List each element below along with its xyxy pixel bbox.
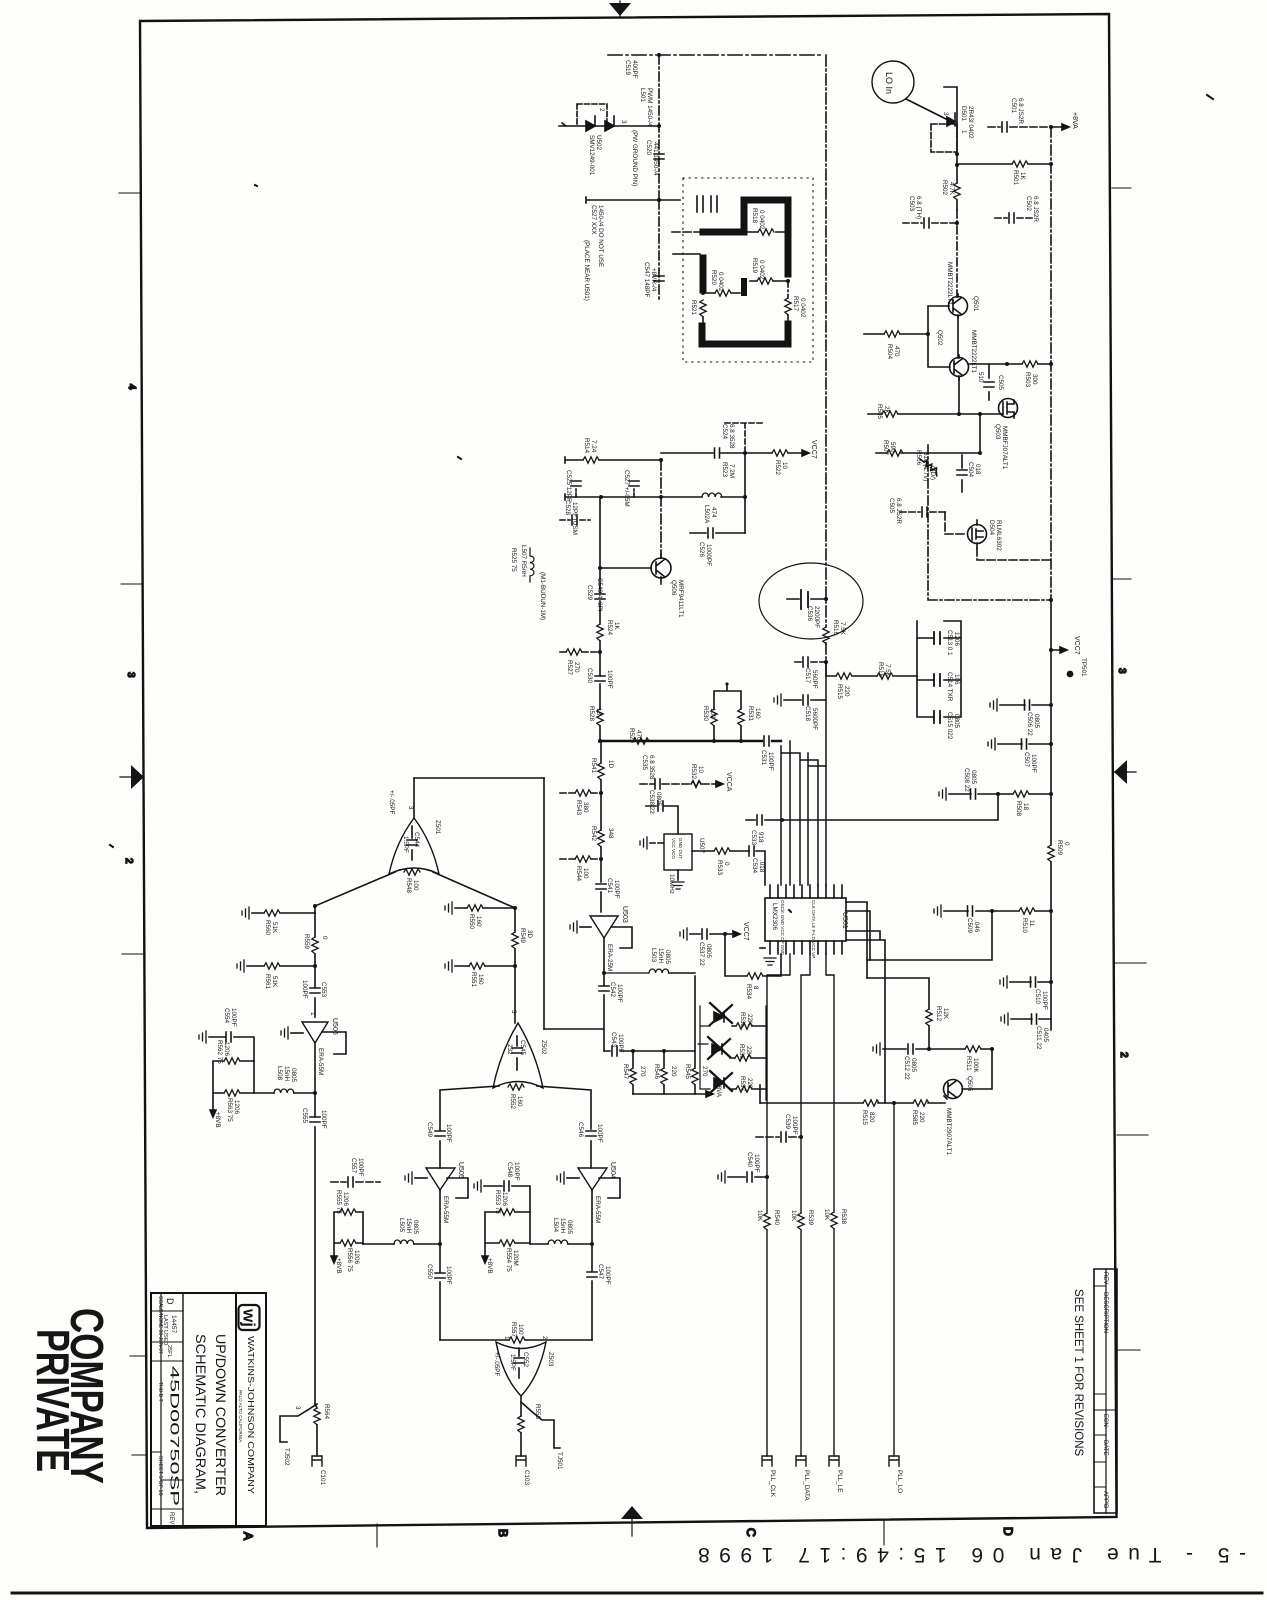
svg-text:22K: 22K <box>745 1046 752 1058</box>
node dot r511 <box>990 1047 994 1051</box>
svg-text:0805: 0805 <box>1033 714 1040 729</box>
svg-text:R551: R551 <box>470 972 477 988</box>
node dot rail r503 <box>1049 362 1053 366</box>
resistor R533 <box>692 848 749 854</box>
svg-text:R523: R523 <box>721 462 728 478</box>
oscillator ellipse <box>759 563 863 639</box>
capacitor C555 <box>310 1117 320 1122</box>
node dot slant right <box>513 906 517 910</box>
rail vertical right <box>1050 127 1052 600</box>
svg-text:C548: C548 <box>506 1162 513 1178</box>
capacitor C536 <box>801 590 808 609</box>
svg-text:10K: 10K <box>823 1209 830 1221</box>
svg-text:1450-/4 DO NOT USE: 1450-/4 DO NOT USE <box>597 205 604 267</box>
wire dashdot right leg <box>787 281 789 298</box>
resistor R549 <box>512 932 518 949</box>
svg-text:C513 0.1: C513 0.1 <box>946 630 953 656</box>
capacitor C554 <box>199 1031 254 1061</box>
svg-text:R518: R518 <box>751 208 758 224</box>
U507 left stub <box>640 837 664 849</box>
svg-text:MMBT2222LT1: MMBT2222LT1 <box>970 330 977 373</box>
svg-text:348: 348 <box>607 828 614 839</box>
svg-text:0805: 0805 <box>412 1220 419 1235</box>
svg-text:3: 3 <box>407 806 414 810</box>
wire gate down <box>979 414 981 453</box>
svg-text:C533: C533 <box>750 830 757 846</box>
node dot d501a <box>955 152 959 156</box>
resistor R562 <box>224 1058 240 1064</box>
svg-text:C514 TXR: C514 TXR <box>946 672 953 702</box>
svg-text:R540: R540 <box>773 1210 780 1226</box>
svg-text:220: 220 <box>746 1078 753 1089</box>
resistor R551 <box>445 960 515 972</box>
svg-text:1K: 1K <box>1019 172 1026 181</box>
resistor R537 <box>732 1086 766 1092</box>
svg-text:270: 270 <box>573 662 580 673</box>
svg-text:R561: R561 <box>264 974 271 990</box>
connector C103 <box>516 1456 526 1466</box>
node dot r514 <box>659 458 663 462</box>
svg-text:100PF: 100PF <box>513 1162 520 1181</box>
inductor L508 <box>254 1089 315 1093</box>
node dot c508 <box>996 792 1000 796</box>
fork TJ501 <box>521 1402 560 1448</box>
R555 R556 bracket <box>334 1212 363 1256</box>
svg-text:1D: 1D <box>607 760 614 769</box>
svg-text:400PF: 400PF <box>631 60 638 79</box>
svg-text:D504: D504 <box>988 520 995 536</box>
svg-text:6.8 3528: 6.8 3528 <box>648 755 655 780</box>
svg-text:CLK DATA LE F-LD VCC VP: CLK DATA LE F-LD VCC VP <box>811 900 816 958</box>
capacitor C539 <box>756 1132 801 1142</box>
svg-text:R517: R517 <box>792 296 799 312</box>
U504 feedback <box>599 1178 620 1198</box>
svg-text:10: 10 <box>697 766 704 774</box>
svg-text:R541: R541 <box>590 758 597 774</box>
svg-text:3D: 3D <box>526 930 533 939</box>
svg-text:2R43I 0402: 2R43I 0402 <box>967 106 974 139</box>
svg-text:C552: C552 <box>522 1352 529 1368</box>
svg-text:.018: .018 <box>758 860 765 873</box>
svg-text:C540: C540 <box>746 1152 753 1168</box>
arrow +8VB mid <box>331 1256 337 1263</box>
diode D501 <box>947 113 955 126</box>
svg-text:106: 106 <box>953 674 960 685</box>
svg-text:R548: R548 <box>405 878 412 894</box>
svg-text:12K: 12K <box>942 1008 949 1020</box>
node dot c510 <box>1049 980 1053 984</box>
resistor R521 <box>700 300 706 324</box>
svg-text:MRF9411LT1: MRF9411LT1 <box>677 580 684 618</box>
svg-text:4: 4 <box>126 384 137 390</box>
resistor R514 <box>583 457 599 463</box>
svg-text:510: 510 <box>977 372 984 383</box>
resistor R512 <box>926 1009 932 1049</box>
resistor R558 <box>518 1416 524 1456</box>
node dot l504 <box>590 1242 594 1246</box>
resistor R502 <box>954 165 960 210</box>
node dot r541 <box>599 791 603 795</box>
svg-text:820: 820 <box>868 1112 875 1123</box>
svg-text:51K: 51K <box>271 976 278 988</box>
resistor R550 <box>445 902 515 914</box>
capacitor C520 <box>654 154 664 159</box>
svg-text:5600PF: 5600PF <box>811 708 818 730</box>
opamp U506 <box>302 1022 328 1043</box>
svg-text:R508: R508 <box>1015 801 1022 817</box>
capacitor C552 <box>514 1348 524 1378</box>
svg-text:474: 474 <box>710 507 717 518</box>
svg-text:VCC7: VCC7 <box>1073 636 1080 655</box>
svg-text:R557: R557 <box>510 1322 517 1338</box>
svg-text:R530: R530 <box>702 706 709 722</box>
svg-text:A: A <box>241 1532 255 1540</box>
svg-text:2: 2 <box>598 108 605 112</box>
svg-text:R524: R524 <box>606 620 613 636</box>
svg-text:100K: 100K <box>972 1058 979 1074</box>
node dot r510 rail <box>1049 909 1053 913</box>
svg-text:R532: R532 <box>690 764 697 780</box>
trunk u506 out <box>314 1043 316 1093</box>
resistor R538 <box>831 1212 837 1229</box>
svg-text:R538: R538 <box>840 1209 847 1225</box>
svg-text:R560: R560 <box>264 920 271 936</box>
capacitor C541 <box>596 859 606 912</box>
capacitor C545 <box>512 1036 522 1070</box>
dashed stub c524 up <box>725 423 765 453</box>
wire x600 chain <box>599 497 601 741</box>
svg-text:10K: 10K <box>790 1210 797 1222</box>
capacitor C510 <box>1000 976 1051 988</box>
inner dotted box <box>683 178 813 362</box>
svg-text:R545: R545 <box>684 1064 691 1080</box>
svg-text:3: 3 <box>620 120 627 124</box>
svg-text:wj: wj <box>240 1308 259 1327</box>
svg-text:(M1-BUDUN-1M): (M1-BUDUN-1M) <box>539 572 546 620</box>
resistor R516b <box>877 673 893 679</box>
svg-text:C530: C530 <box>586 668 593 684</box>
wire Z501 right slant <box>433 872 515 908</box>
svg-text:590: 590 <box>889 442 896 453</box>
wire Z502 right leg <box>537 1086 591 1129</box>
svg-text:0: 0 <box>723 862 730 866</box>
svg-text:R537: R537 <box>739 1076 746 1092</box>
rail x826 <box>825 55 827 662</box>
svg-text:C529: C529 <box>586 585 593 601</box>
svg-text:+/-.05PF: +/-.05PF <box>388 790 395 814</box>
svg-text:C557: C557 <box>350 1158 357 1174</box>
svg-text:VCCA: VCCA <box>725 772 732 792</box>
wire c526 row <box>690 532 745 534</box>
svg-text:0805: 0805 <box>655 792 662 807</box>
resistor R506 diagonal <box>920 459 940 476</box>
resistor R531 <box>738 709 744 726</box>
capacitor C515 <box>934 711 940 723</box>
svg-text:1.5PF: 1.5PF <box>402 836 409 853</box>
U503 ground stub <box>570 921 591 933</box>
svg-text:18: 18 <box>595 708 602 716</box>
arrow VCC7 tp <box>1051 647 1067 653</box>
resistor R540 <box>764 1213 770 1230</box>
capacitor C517 <box>795 657 826 667</box>
U503 out <box>603 938 605 973</box>
resistor R548 <box>404 869 420 875</box>
border frame <box>140 14 1117 1528</box>
node dot base <box>926 332 930 336</box>
svg-text:1L: 1L <box>1028 920 1035 928</box>
wire Q502 emitter down <box>958 377 960 414</box>
U502 package outline <box>577 104 607 126</box>
capacitor C533 <box>757 815 762 825</box>
svg-text:C549: C549 <box>426 1122 433 1138</box>
node dot r542 <box>599 857 603 861</box>
U501 IC box <box>765 898 846 941</box>
svg-text:R503: R503 <box>1024 372 1031 388</box>
svg-text:C501: C501 <box>1010 98 1017 114</box>
title block outer box <box>151 1293 266 1526</box>
svg-text:6.8 JS2R: 6.8 JS2R <box>1017 98 1024 124</box>
svg-text:470: 470 <box>893 346 900 357</box>
resistor pair R530 R531 bracket <box>714 684 741 741</box>
svg-text:C535: C535 <box>641 755 648 771</box>
svg-text:R521: R521 <box>690 300 697 316</box>
svg-text:D501: D501 <box>960 106 967 122</box>
capacitor C507 <box>988 738 1051 750</box>
ground U501 <box>760 948 776 965</box>
svg-text:3: 3 <box>125 672 136 678</box>
svg-text:R550: R550 <box>468 914 475 930</box>
svg-text:R505: R505 <box>876 404 883 420</box>
svg-text:0 0402: 0 0402 <box>758 210 765 230</box>
resistor R529 <box>633 738 649 744</box>
svg-text:DATE: DATE <box>1102 1440 1108 1456</box>
svg-text:C542: C542 <box>609 982 616 998</box>
svg-text:45D00750SP: 45D00750SP <box>168 1366 182 1506</box>
capacitor C550 <box>435 1273 445 1278</box>
node dot c509 <box>990 909 994 913</box>
crossed diode CR1 <box>710 1003 732 1025</box>
svg-text:PLL_CLK: PLL_CLK <box>769 1470 776 1498</box>
svg-text:R549: R549 <box>519 928 526 944</box>
svg-text:U501: U501 <box>841 912 848 929</box>
svg-text:LMX2306: LMX2306 <box>771 903 778 930</box>
svg-text:C526: C526 <box>698 542 705 558</box>
node dot y820 <box>780 818 784 822</box>
svg-text:ERA-55M: ERA-55M <box>594 1196 601 1223</box>
node dot c503 <box>955 221 959 225</box>
node dot gate <box>978 412 982 416</box>
module boundary top dashed line <box>608 54 823 56</box>
svg-text:441 1450-/4: 441 1450-/4 <box>652 142 659 176</box>
svg-text:+8VA: +8VA <box>1071 112 1078 129</box>
arrow +8VA <box>1051 124 1069 130</box>
capacitor C502 <box>995 213 1032 223</box>
svg-text:Q503: Q503 <box>994 424 1001 440</box>
capacitor C513 <box>934 632 940 644</box>
node dot lower <box>657 198 661 202</box>
svg-text:0805: 0805 <box>664 950 671 965</box>
testpoint TP501 <box>1067 671 1074 678</box>
svg-text:2K: 2K <box>883 406 890 415</box>
svg-text:51K: 51K <box>271 922 278 934</box>
capacitor C511 <box>1001 1013 1051 1025</box>
resistor R507 <box>887 450 903 456</box>
svg-text:100PF: 100PF <box>767 752 774 771</box>
opamp U505 <box>426 1168 455 1190</box>
svg-text:270: 270 <box>701 1066 708 1077</box>
svg-text:+8VB: +8VB <box>486 1258 493 1274</box>
capacitor C530 <box>595 676 605 681</box>
U506 feedback loop <box>322 1032 346 1054</box>
svg-text:0: 0 <box>1063 842 1070 846</box>
R541 column top link <box>600 741 602 763</box>
diode D502b <box>605 116 614 131</box>
resistor R503 <box>1007 361 1051 367</box>
capacitor C535 <box>655 779 660 789</box>
bottom fiducial arrow <box>621 1506 643 1519</box>
transistor Q506 <box>651 554 671 584</box>
bottom page edge shadow line <box>12 1592 1262 1595</box>
wire r515 row <box>826 662 917 676</box>
svg-text:PLL_LE: PLL_LE <box>836 1470 843 1492</box>
svg-text:100PF: 100PF <box>791 1116 798 1135</box>
svg-text:C527 +/-05M: C527 +/-05M <box>623 470 630 507</box>
svg-text:SCHEMATIC DIAGRAM,: SCHEMATIC DIAGRAM, <box>193 1334 209 1494</box>
svg-text:APP'D: APP'D <box>1102 1491 1108 1509</box>
svg-text:100: 100 <box>517 1324 524 1335</box>
svg-text:R516: R516 <box>877 662 884 678</box>
svg-text:R534: R534 <box>745 984 752 1000</box>
title block divider narrow left strip <box>160 1293 162 1526</box>
svg-text:1206: 1206 <box>233 1100 240 1115</box>
trunk x315 upper <box>314 906 316 1017</box>
svg-text:C505: C505 <box>888 498 895 514</box>
svg-text:0805: 0805 <box>953 714 960 729</box>
wire y1340 row <box>440 1339 592 1341</box>
svg-text:+/-.05PF: +/-.05PF <box>493 1352 500 1376</box>
fork TJ502 <box>280 1404 317 1442</box>
svg-text:560PF: 560PF <box>811 670 818 689</box>
svg-text:SHEET 5 OF 10: SHEET 5 OF 10 <box>157 1456 163 1496</box>
wire stub lower <box>586 197 680 203</box>
svg-text:15nH: 15nH <box>405 1218 412 1234</box>
svg-text:160: 160 <box>477 974 484 985</box>
svg-text:0: 0 <box>321 936 328 940</box>
svg-text:C502: C502 <box>1025 196 1032 212</box>
svg-text:3: 3 <box>1116 668 1127 674</box>
svg-text:100: 100 <box>582 868 589 879</box>
wire VCC7 row <box>661 452 802 454</box>
svg-text:15nH: 15nH <box>657 948 664 964</box>
svg-text:R516: R516 <box>832 620 839 636</box>
svg-text:R509: R509 <box>1056 840 1063 856</box>
transistor Q505 <box>944 1080 963 1100</box>
svg-text:2200PF: 2200PF <box>813 606 820 628</box>
crossed diode CR3 <box>710 1071 732 1093</box>
svg-text:4.7K: 4.7K <box>948 182 955 196</box>
U507 TCXO box <box>664 834 692 870</box>
svg-text:C555: C555 <box>301 1108 308 1124</box>
capacitor C506 <box>990 699 1051 711</box>
svg-text:C524: C524 <box>721 424 728 440</box>
svg-text:C520: C520 <box>645 140 652 156</box>
node dot c540 <box>765 1175 769 1179</box>
svg-text:LO In: LO In <box>884 72 894 94</box>
arrow VCCA <box>716 781 723 787</box>
title block cell rules <box>151 1311 183 1509</box>
svg-text:C519: C519 <box>624 60 631 76</box>
svg-text:R522: R522 <box>774 460 781 476</box>
wire gate row <box>868 413 1003 415</box>
svg-text:R544: R544 <box>575 866 582 882</box>
arrow +8VA bottom <box>706 1091 713 1097</box>
dashdot link to rail corner <box>928 445 1051 600</box>
resistor R564 <box>314 1404 320 1456</box>
capacitor C548 <box>474 1180 530 1212</box>
svg-text:1206: 1206 <box>223 1042 230 1057</box>
bus riser fan <box>781 741 826 885</box>
capacitor C514 <box>934 674 940 686</box>
svg-text:C527 XXX: C527 XXX <box>590 205 597 235</box>
U503 feedback loop <box>611 927 632 948</box>
node dot u503 out <box>602 971 606 975</box>
balloon LO In <box>872 61 914 103</box>
resistor R522 <box>772 450 788 456</box>
svg-text:SEE SHEET 1 FOR REVISIONS: SEE SHEET 1 FOR REVISIONS <box>1072 1289 1084 1457</box>
resistor R519 <box>750 278 787 284</box>
svg-text:C538 22: C538 22 <box>648 790 655 814</box>
svg-text:C531: C531 <box>760 750 767 766</box>
wire y1103 row <box>760 1102 945 1104</box>
svg-text:C507: C507 <box>1023 752 1030 768</box>
resistor R561 <box>237 960 315 972</box>
svg-text:+8VA: +8VA <box>715 1082 722 1098</box>
node dot ellipse <box>824 597 828 601</box>
svg-text:R502: R502 <box>941 180 948 196</box>
svg-text:C547: C547 <box>597 1264 604 1280</box>
resistor R544 <box>560 856 601 862</box>
svg-text:0805: 0805 <box>910 1058 917 1073</box>
svg-text:10: 10 <box>781 462 788 470</box>
svg-text:UP/DOWN CONVERTER: UP/DOWN CONVERTER <box>213 1334 229 1496</box>
capacitor C504 <box>957 455 967 492</box>
right edge zone ticks <box>1112 188 1148 1350</box>
U504 out leg <box>591 1190 593 1340</box>
wire into module <box>672 231 703 233</box>
wire right vertical x544 <box>543 778 545 1029</box>
svg-text:U504: U504 <box>609 1162 616 1179</box>
svg-text:D: D <box>1001 1527 1015 1536</box>
svg-text:6.8 3528: 6.8 3528 <box>728 424 735 449</box>
wire collector q502 <box>968 363 1007 365</box>
svg-text:25FL: 25FL <box>166 1345 172 1358</box>
resistor R560 <box>242 907 315 919</box>
svg-text:R559: R559 <box>303 934 310 950</box>
svg-text:C518: C518 <box>804 706 811 722</box>
resistor R518 <box>748 229 784 235</box>
svg-text:0 0402: 0 0402 <box>758 260 765 280</box>
svg-text:C545: C545 <box>519 1040 526 1056</box>
svg-text:L501: L501 <box>639 88 646 103</box>
node dot diode row <box>657 124 661 128</box>
capacitor C518 <box>774 694 826 706</box>
resistor R515c <box>863 1100 879 1106</box>
svg-text:R520: R520 <box>710 270 717 286</box>
node dot r561 <box>313 964 317 968</box>
node dot y497 a <box>599 495 603 499</box>
node dot rail corner <box>1049 598 1053 602</box>
svg-text:15nH: 15nH <box>559 1218 566 1234</box>
